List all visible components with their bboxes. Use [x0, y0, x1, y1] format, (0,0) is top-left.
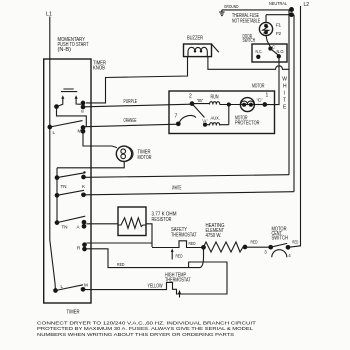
svg-text:L1: L1 — [46, 12, 52, 18]
svg-text:2: 2 — [189, 94, 192, 100]
svg-text:ORANGE: ORANGE — [124, 118, 137, 124]
svg-text:L2: L2 — [304, 2, 310, 8]
svg-text:N.O.: N.O. — [277, 49, 285, 54]
svg-text:NUMBERS WHEN WRITING ABOUT THI: NUMBERS WHEN WRITING ABOUT THIS DRYER OR… — [37, 332, 234, 337]
svg-text:F2: F2 — [276, 31, 281, 36]
svg-text:'B': 'B' — [197, 98, 203, 103]
svg-text:RUN: RUN — [211, 95, 219, 101]
svg-text:NOT RESETABLE: NOT RESETABLE — [232, 19, 260, 25]
svg-text:M: M — [78, 129, 82, 134]
svg-text:TIMER: TIMER — [67, 310, 80, 316]
svg-text:RESISTOR: RESISTOR — [152, 217, 172, 223]
svg-text:PROTECTED BY MAXIMUM 30 A. FUS: PROTECTED BY MAXIMUM 30 A. FUSES. ALWAYS… — [37, 326, 254, 331]
svg-text:I: I — [284, 91, 285, 97]
svg-text:4750 W.: 4750 W. — [206, 233, 222, 239]
svg-text:BUZZER: BUZZER — [187, 35, 203, 41]
svg-text:GROUND: GROUND — [224, 4, 239, 9]
svg-text:NEUTRAL: NEUTRAL — [269, 1, 287, 6]
svg-text:THERMOSTAT: THERMOSTAT — [171, 233, 197, 239]
svg-text:KNOB: KNOB — [93, 66, 106, 72]
svg-text:W: W — [282, 77, 287, 83]
svg-text:B: B — [81, 110, 84, 114]
svg-text:'A': 'A' — [202, 118, 208, 123]
svg-text:RED: RED — [251, 240, 259, 245]
svg-text:TN: TN — [61, 184, 67, 189]
svg-text:H: H — [283, 84, 287, 90]
svg-text:MOTOR: MOTOR — [138, 155, 152, 161]
svg-text:K: K — [82, 184, 85, 189]
svg-text:PURPLE: PURPLE — [124, 99, 138, 105]
svg-text:SWITCH: SWITCH — [272, 236, 289, 242]
svg-text:RED: RED — [176, 254, 184, 259]
svg-text:YELLOW: YELLOW — [148, 284, 163, 290]
svg-text:A: A — [77, 225, 80, 230]
svg-text:7: 7 — [175, 114, 178, 120]
svg-text:(N-B): (N-B) — [58, 47, 72, 53]
svg-text:PROTECTOR: PROTECTOR — [235, 121, 260, 127]
svg-text:WHITE: WHITE — [172, 186, 182, 192]
svg-text:F1: F1 — [276, 23, 281, 28]
svg-text:N.C.: N.C. — [256, 49, 263, 54]
svg-text:'C': 'C' — [257, 98, 263, 103]
svg-text:TN: TN — [62, 225, 68, 230]
svg-text:T: T — [283, 98, 286, 104]
svg-text:1: 1 — [266, 93, 269, 99]
svg-text:SWITCH: SWITCH — [243, 38, 256, 44]
svg-text:CONNECT DRYER TO 120/240 V.A.C: CONNECT DRYER TO 120/240 V.A.C.,60 HZ. I… — [37, 321, 257, 326]
svg-text:RED: RED — [189, 241, 197, 246]
svg-text:C: C — [272, 44, 275, 49]
svg-text:MOTOR: MOTOR — [252, 84, 265, 90]
svg-text:RED: RED — [117, 262, 125, 267]
svg-text:RED: RED — [292, 239, 298, 244]
svg-text:M: M — [84, 283, 88, 288]
svg-text:AUX.: AUX. — [211, 116, 221, 121]
